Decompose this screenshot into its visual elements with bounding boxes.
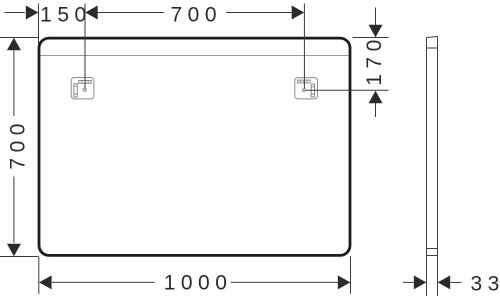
front view mirror outline <box>39 38 350 255</box>
dimension lines 150 and 700 top <box>5 4 305 89</box>
dimension 33 bottom right <box>403 281 462 283</box>
wall bracket right <box>295 78 318 99</box>
svg-text:700: 700 <box>170 3 222 26</box>
dimension 170 right <box>306 8 389 118</box>
mirror inner seam line <box>41 55 349 57</box>
svg-text:150: 150 <box>40 3 92 26</box>
svg-text:700: 700 <box>7 118 30 170</box>
svg-text:33: 33 <box>470 273 500 296</box>
svg-text:170: 170 <box>363 34 386 86</box>
dimension 1000 bottom <box>39 256 351 294</box>
svg-text:1000: 1000 <box>164 271 233 294</box>
dimension 700 left <box>0 38 38 257</box>
side view profile <box>427 37 438 296</box>
wall bracket left <box>71 78 94 99</box>
